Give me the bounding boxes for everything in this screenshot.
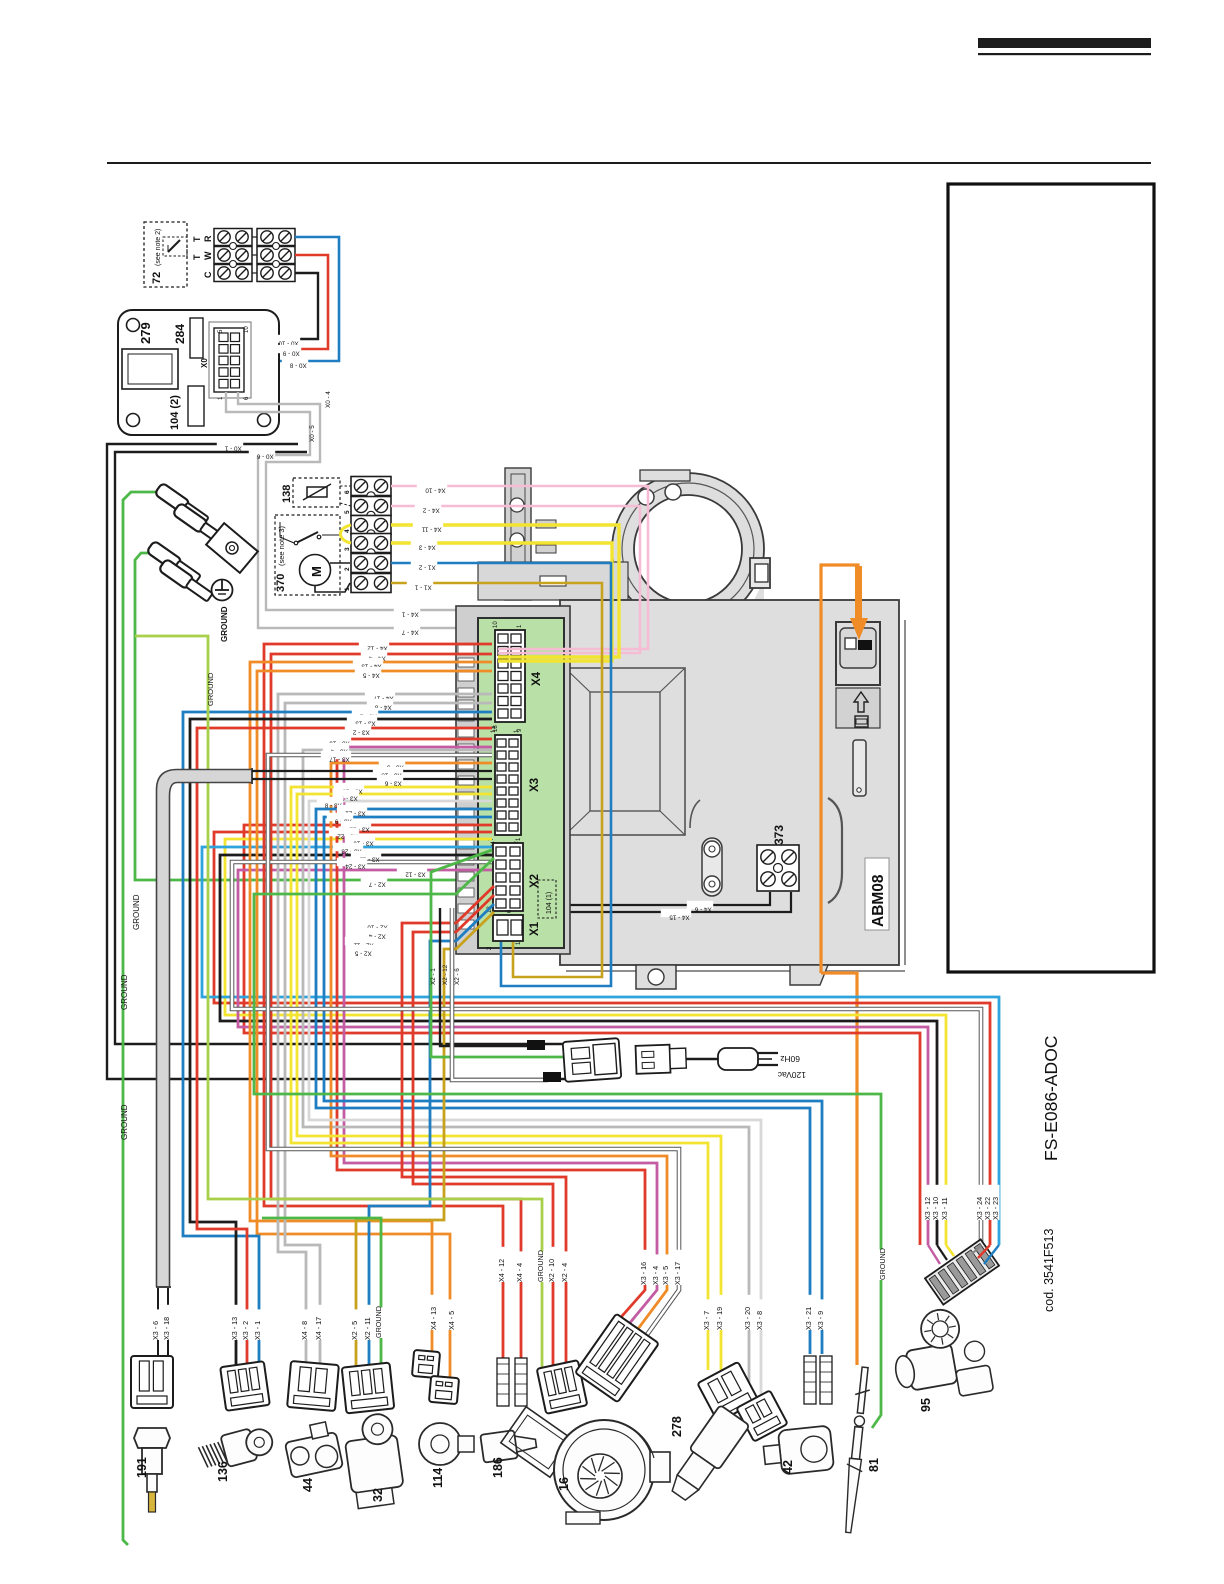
svg-text:X3 - 1: X3 - 1 (253, 1321, 262, 1340)
svg-text:X4 - 12: X4 - 12 (497, 1259, 506, 1282)
svg-text:X2 - 6: X2 - 6 (454, 968, 461, 985)
svg-text:X0 - 5: X0 - 5 (309, 425, 316, 442)
svg-text:60Hz: 60Hz (780, 1054, 800, 1064)
svg-text:X4 - 4: X4 - 4 (515, 1263, 524, 1282)
svg-text:X3 - 13: X3 - 13 (230, 1317, 239, 1340)
svg-text:32: 32 (371, 1488, 385, 1502)
svg-text:X3 - 6: X3 - 6 (151, 1321, 160, 1340)
svg-text:X3 - 24: X3 - 24 (345, 862, 366, 869)
svg-text:373: 373 (772, 825, 786, 845)
svg-text:120Vac: 120Vac (777, 1070, 806, 1080)
svg-text:X2 - 12: X2 - 12 (442, 964, 449, 985)
svg-text:X2: X2 (529, 874, 541, 888)
svg-text:X0 - 4: X0 - 4 (325, 391, 332, 408)
svg-text:X0 - 9: X0 - 9 (282, 349, 299, 356)
svg-text:X2 - 11: X2 - 11 (363, 1317, 372, 1340)
svg-text:GROUND: GROUND (536, 1250, 545, 1282)
svg-text:X3 - 9: X3 - 9 (816, 1311, 825, 1330)
svg-text:X3 - 12: X3 - 12 (405, 870, 426, 877)
svg-text:cod. 3541F513: cod. 3541F513 (1042, 1229, 1056, 1312)
svg-text:X1: X1 (529, 921, 541, 936)
svg-text:370: 370 (275, 574, 287, 592)
svg-text:284: 284 (173, 324, 187, 344)
svg-text:186: 186 (491, 1457, 505, 1478)
svg-text:6: 6 (344, 490, 351, 494)
svg-text:X3 - 7: X3 - 7 (702, 1311, 711, 1330)
svg-text:GROUND: GROUND (878, 1248, 887, 1280)
svg-text:1: 1 (344, 587, 351, 591)
svg-text:X2 - 1: X2 - 1 (430, 968, 437, 985)
svg-text:X3 - 8: X3 - 8 (755, 1311, 764, 1330)
svg-text:95: 95 (919, 1398, 933, 1412)
svg-text:X2 - 5: X2 - 5 (354, 949, 371, 956)
svg-text:X3 - 21: X3 - 21 (804, 1307, 813, 1330)
svg-text:X4 - 1: X4 - 1 (401, 610, 418, 617)
svg-text:2: 2 (344, 567, 351, 571)
svg-text:X3 - 17: X3 - 17 (673, 1262, 682, 1285)
svg-text:T: T (192, 254, 202, 260)
svg-text:GROUND: GROUND (120, 974, 129, 1010)
svg-text:X2 - 7: X2 - 7 (368, 880, 385, 887)
svg-text:81: 81 (867, 1458, 881, 1472)
svg-text:42: 42 (781, 1460, 795, 1474)
svg-text:5: 5 (344, 510, 351, 514)
svg-text:X0: X0 (200, 358, 209, 368)
svg-text:X3: X3 (529, 778, 541, 792)
svg-text:X0 - 6: X0 - 6 (256, 452, 273, 459)
svg-text:3: 3 (344, 547, 351, 551)
svg-text:136: 136 (216, 1461, 230, 1482)
svg-text:T: T (192, 236, 202, 242)
svg-text:X3 - 2: X3 - 2 (241, 1321, 250, 1340)
svg-text:X2 - 5: X2 - 5 (350, 1321, 359, 1340)
svg-text:44: 44 (301, 1478, 315, 1492)
svg-text:114: 114 (431, 1468, 445, 1488)
svg-text:X3 - 11: X3 - 11 (940, 1197, 949, 1220)
svg-text:X4 - 3: X4 - 3 (418, 543, 435, 550)
svg-text:X3 - 20: X3 - 20 (743, 1307, 752, 1330)
svg-text:X4 - 15: X4 - 15 (669, 913, 690, 920)
svg-text:X3 - 17: X3 - 17 (329, 755, 350, 762)
svg-text:191: 191 (135, 1457, 149, 1478)
svg-text:138: 138 (281, 485, 293, 503)
svg-text:GROUND: GROUND (206, 672, 215, 706)
svg-text:X4 - 8: X4 - 8 (300, 1321, 309, 1340)
svg-text:278: 278 (670, 1416, 684, 1437)
svg-text:72: 72 (151, 272, 163, 284)
svg-text:X3 - 19: X3 - 19 (715, 1307, 724, 1330)
svg-text:10: 10 (493, 621, 499, 628)
svg-text:X3 - 4: X3 - 4 (651, 1266, 660, 1285)
svg-text:C: C (203, 271, 213, 278)
svg-text:104 (1): 104 (1) (546, 892, 553, 914)
svg-text:X4: X4 (531, 671, 543, 686)
svg-text:X1 - 1: X1 - 1 (414, 583, 431, 590)
svg-text:X4 - 13: X4 - 13 (429, 1307, 438, 1330)
svg-text:GROUND: GROUND (220, 606, 229, 642)
svg-text:X4 - 5: X4 - 5 (447, 1311, 456, 1330)
svg-text:X4 - 6: X4 - 6 (694, 905, 711, 912)
svg-text:X2 - 4: X2 - 4 (560, 1263, 569, 1282)
svg-text:GROUND: GROUND (374, 1306, 383, 1338)
svg-text:(see note 2): (see note 2) (155, 229, 162, 266)
svg-text:GROUND: GROUND (120, 1104, 129, 1140)
svg-text:X4 - 5: X4 - 5 (362, 671, 379, 678)
svg-text:GROUND: GROUND (132, 894, 141, 930)
svg-text:X3 - 6: X3 - 6 (384, 779, 401, 786)
svg-text:X4 - 2: X4 - 2 (422, 506, 439, 513)
svg-text:16: 16 (557, 1477, 571, 1491)
svg-text:X3 - 16: X3 - 16 (639, 1262, 648, 1285)
svg-text:10: 10 (244, 326, 250, 333)
svg-text:X3 - 18: X3 - 18 (162, 1317, 171, 1340)
svg-text:W: W (203, 251, 213, 260)
svg-text:X3 - 2: X3 - 2 (352, 728, 369, 735)
svg-text:X4 - 11: X4 - 11 (421, 525, 441, 532)
svg-text:X2 - 10: X2 - 10 (547, 1259, 556, 1282)
svg-text:104 (2): 104 (2) (169, 395, 181, 430)
svg-text:X3 - 5: X3 - 5 (661, 1266, 670, 1285)
svg-text:4: 4 (344, 529, 351, 533)
svg-text:X4 - 10: X4 - 10 (425, 486, 446, 493)
svg-text:(see note 3): (see note 3) (277, 525, 286, 566)
svg-text:X3 - 10: X3 - 10 (931, 1197, 940, 1220)
svg-text:X3 - 23: X3 - 23 (991, 1197, 1000, 1220)
svg-text:FS-E086-ADOC: FS-E086-ADOC (1041, 1036, 1061, 1161)
svg-text:279: 279 (138, 322, 153, 344)
svg-text:X1 - 2: X1 - 2 (418, 563, 435, 570)
svg-text:X4 - 17: X4 - 17 (314, 1317, 323, 1340)
svg-text:M: M (309, 566, 324, 577)
svg-text:ABM08: ABM08 (870, 874, 887, 927)
svg-text:X0 - 8: X0 - 8 (289, 361, 306, 368)
svg-text:X0 - 1: X0 - 1 (224, 444, 241, 451)
svg-text:R: R (203, 235, 213, 242)
svg-text:X4 - 7: X4 - 7 (401, 628, 418, 635)
